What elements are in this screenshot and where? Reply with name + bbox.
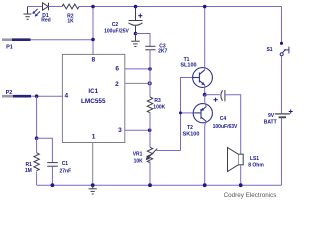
wire ground to LED bbox=[28, 6, 43, 8]
node rail T2 bbox=[203, 183, 207, 187]
svg-text:BATT: BATT bbox=[264, 119, 277, 125]
wire LED to R2 bbox=[49, 6, 63, 8]
svg-text:1: 1 bbox=[92, 134, 96, 141]
svg-text:R1: R1 bbox=[25, 162, 32, 168]
svg-text:100uF/63V: 100uF/63V bbox=[213, 124, 238, 130]
wire pin8 vertical bbox=[92, 7, 94, 55]
svg-text:R3: R3 bbox=[154, 98, 161, 104]
node rail pin1 bbox=[91, 183, 95, 187]
wire VR1 wiper to base rail bbox=[157, 150, 181, 152]
svg-text:C4: C4 bbox=[220, 116, 227, 122]
svg-text:C1: C1 bbox=[62, 161, 69, 167]
node top rail / pin8 bbox=[91, 5, 95, 9]
wire C1 to bottom rail bbox=[51, 166, 53, 185]
svg-text:8: 8 bbox=[91, 56, 95, 63]
LED D1 bbox=[43, 3, 49, 10]
svg-text:LMC555: LMC555 bbox=[81, 98, 106, 105]
svg-text:8 Ohm: 8 Ohm bbox=[248, 163, 264, 169]
node pin2 bbox=[148, 82, 151, 85]
svg-text:IC1: IC1 bbox=[88, 88, 98, 95]
wire battery to bottom rail bbox=[281, 117, 283, 185]
svg-text:4: 4 bbox=[64, 93, 68, 100]
node P1 / pin8 bbox=[91, 38, 95, 42]
plus sign battery bbox=[289, 110, 293, 114]
svg-text:100K: 100K bbox=[153, 105, 165, 111]
potentiometer VR1 bbox=[147, 147, 152, 162]
op IC1 box bbox=[62, 54, 124, 142]
node rail speaker bbox=[239, 183, 243, 187]
svg-text:Codrey Electronics: Codrey Electronics bbox=[224, 192, 277, 199]
terminal P2 bbox=[2, 95, 13, 98]
wire right side top bbox=[281, 7, 283, 44]
wire pin 6 bbox=[125, 68, 150, 70]
svg-text:T2: T2 bbox=[187, 125, 193, 131]
svg-text:VR1: VR1 bbox=[133, 151, 143, 157]
wire pin 4 bbox=[37, 95, 63, 97]
terminal P1 bbox=[2, 38, 12, 41]
wire R3 to pin3 node bbox=[149, 112, 151, 130]
svg-text:SL100: SL100 bbox=[180, 62, 196, 68]
wire pin 3 bbox=[125, 129, 150, 131]
svg-text:6: 6 bbox=[115, 66, 119, 73]
svg-text:LS1: LS1 bbox=[250, 156, 259, 162]
node T1/T2/C4 bbox=[203, 93, 207, 97]
svg-text:27nF: 27nF bbox=[59, 168, 71, 174]
wire T2 collector up bbox=[205, 95, 207, 107]
ground pin1 bbox=[89, 185, 97, 194]
resistor R2 bbox=[62, 4, 79, 9]
node rail C1 bbox=[51, 183, 55, 187]
svg-text:P2: P2 bbox=[6, 90, 13, 96]
node top rail / C2 bbox=[134, 5, 138, 9]
capacitor C4 bbox=[221, 90, 225, 101]
wire P2 to node bbox=[31, 95, 37, 97]
svg-text:2K7: 2K7 bbox=[158, 49, 167, 55]
capacitor C1 bbox=[47, 163, 58, 167]
wire base rail bbox=[181, 78, 193, 151]
wire bottom rail bbox=[37, 184, 282, 186]
wire C2 node to C3 bbox=[136, 34, 151, 47]
wire R1 to bottom rail bbox=[36, 172, 38, 186]
LED arrows bbox=[32, 9, 40, 17]
speaker LS1 bbox=[228, 148, 244, 172]
wire pin 2 bbox=[125, 82, 150, 84]
wire S1 to battery bbox=[281, 56, 283, 114]
capacitor C2 bbox=[129, 7, 143, 34]
node rail VR1 bbox=[148, 183, 152, 187]
transistor T1 bbox=[193, 68, 213, 88]
node T2 base bbox=[179, 111, 182, 114]
wire C4 to speaker bbox=[225, 95, 241, 155]
capacitor C3 bbox=[145, 46, 155, 50]
wire P1 to pin8 line bbox=[31, 39, 94, 41]
ground top-left bbox=[24, 7, 32, 20]
wire to R1 bbox=[36, 138, 38, 153]
node pin3 bbox=[148, 128, 152, 132]
wire node to C4 bbox=[205, 94, 220, 96]
svg-text:2: 2 bbox=[115, 81, 119, 88]
node C2 bottom bbox=[134, 32, 138, 36]
svg-text:3: 3 bbox=[118, 127, 122, 134]
wire pin3 node to VR1 bbox=[149, 130, 151, 147]
battery BATT bbox=[275, 114, 290, 117]
wire T1 emitter to node bbox=[204, 85, 206, 95]
ground C2 bbox=[131, 34, 140, 47]
plus sign C4 bbox=[214, 98, 218, 102]
wire T1 collector to top rail bbox=[204, 7, 206, 70]
wire T2 base tap bbox=[181, 112, 195, 114]
resistor R3 bbox=[147, 97, 152, 113]
wire C3 to pin6 node bbox=[149, 50, 151, 69]
svg-text:Red: Red bbox=[41, 18, 50, 24]
wire pin 1 bbox=[92, 143, 94, 186]
svg-text:9V: 9V bbox=[268, 113, 275, 119]
wire top rail bbox=[79, 6, 282, 8]
wire speaker to bottom rail bbox=[240, 165, 242, 185]
plus sign C2 bbox=[138, 14, 142, 18]
wire VR1 to bottom rail bbox=[149, 161, 151, 185]
node R1/C1 top bbox=[35, 136, 39, 140]
svg-text:C2: C2 bbox=[112, 22, 119, 28]
svg-text:P1: P1 bbox=[6, 45, 13, 51]
svg-text:1K: 1K bbox=[67, 18, 74, 24]
wire T2 emitter to bottom rail bbox=[205, 121, 207, 185]
node P2 branch bbox=[35, 94, 39, 98]
resistor R1 bbox=[34, 153, 39, 171]
transistor T2 bbox=[193, 104, 212, 123]
svg-text:100uF/25V: 100uF/25V bbox=[104, 29, 129, 35]
svg-text:S1: S1 bbox=[266, 47, 272, 53]
wire C1 branch top bbox=[37, 138, 53, 162]
node top rail / T1 bbox=[203, 5, 207, 9]
switch S1 bbox=[280, 42, 289, 56]
VR1 wiper arrow bbox=[146, 149, 158, 161]
svg-text:1M: 1M bbox=[25, 168, 32, 174]
wire node down to R1/C1 bbox=[36, 96, 38, 138]
svg-text:10K: 10K bbox=[134, 159, 144, 165]
svg-text:SK100: SK100 bbox=[183, 132, 200, 138]
wire rail pin6 to R3 bbox=[149, 69, 151, 97]
node pin6 bbox=[148, 67, 152, 71]
